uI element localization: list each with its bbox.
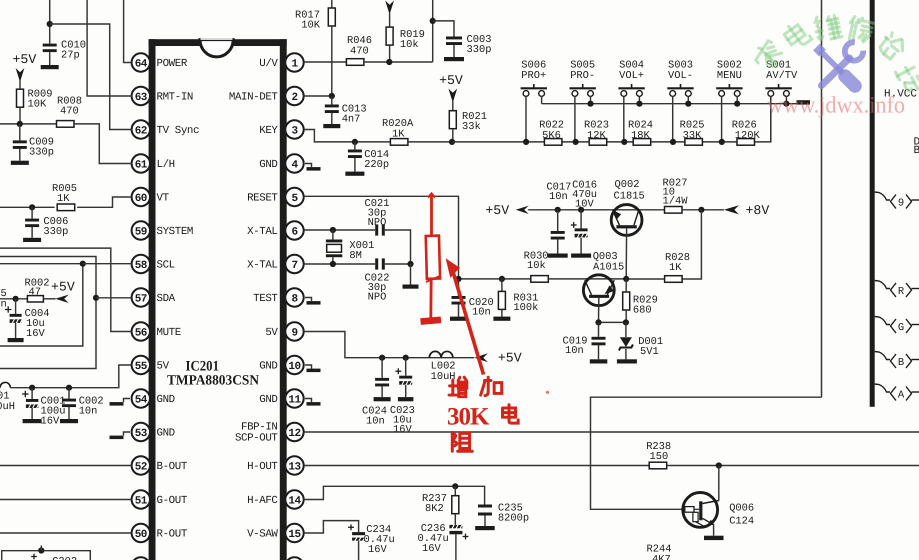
svg-text:30K: 30K <box>447 404 490 431</box>
capacitor C017 <box>557 210 559 231</box>
junction key ladder <box>719 139 725 145</box>
wire reset node rail <box>459 278 532 280</box>
capacitor C020 <box>458 279 460 296</box>
svg-text:A: A <box>898 390 905 402</box>
svg-text:+5V: +5V <box>13 52 37 67</box>
svg-text:3: 3 <box>291 125 298 137</box>
ground pin 8 <box>305 298 312 302</box>
svg-text:8K2: 8K2 <box>425 503 444 515</box>
wire node A to pin 62 <box>50 24 132 130</box>
pin 53 GND <box>132 423 150 441</box>
svg-text:12K: 12K <box>587 130 606 142</box>
svg-text:61: 61 <box>135 159 148 171</box>
svg-text:64: 64 <box>135 58 148 70</box>
svg-text:330p: 330p <box>29 147 54 159</box>
resistor R002 <box>27 296 43 302</box>
capacitor C234 <box>348 526 354 528</box>
pin 4 GND <box>285 154 303 172</box>
resistor R017 <box>331 0 333 8</box>
wire to pin 64 <box>124 0 132 63</box>
+5V supply L002 <box>474 353 488 362</box>
pin 54 GND <box>132 389 150 407</box>
svg-text:55: 55 <box>135 361 148 373</box>
node C019 junction <box>595 319 601 325</box>
IC U201 body (IC201 TMPA8803CSN) <box>149 39 156 560</box>
annotation red resistor <box>428 194 435 198</box>
node A junction <box>47 21 53 27</box>
bus thin vertical <box>821 0 823 397</box>
node R019/R046 junction <box>386 59 392 65</box>
resistor R028 <box>665 276 683 283</box>
svg-text:5K6: 5K6 <box>542 130 561 142</box>
node C006 junction <box>29 204 35 210</box>
ground pin 10 <box>305 365 312 369</box>
svg-text:1/4W: 1/4W <box>663 196 689 208</box>
svg-text:PRO-: PRO- <box>570 70 595 82</box>
ground C010 <box>41 65 59 69</box>
resistor R023 <box>589 139 607 146</box>
wire R028 branch <box>683 210 702 279</box>
svg-text:NPO: NPO <box>368 292 387 304</box>
wire key rail upper <box>542 103 797 105</box>
pin 62 TV Sync <box>132 120 150 138</box>
pin 57 SDA <box>132 288 150 306</box>
node SCL junction <box>80 261 86 267</box>
node C013 junction <box>329 93 335 99</box>
svg-text:A1015: A1015 <box>593 262 624 274</box>
ground C017 <box>548 254 568 258</box>
ground C002 <box>60 419 78 423</box>
ground C020 <box>450 317 467 321</box>
svg-text:+5V: +5V <box>439 73 463 88</box>
capacitor C014 <box>354 142 356 150</box>
wire R002 row <box>0 298 27 300</box>
wire pin 9 rail <box>304 332 475 358</box>
svg-text:57: 57 <box>135 293 147 305</box>
svg-text:+8V: +8V <box>746 203 770 218</box>
svg-text:B: B <box>898 357 904 369</box>
wire pin 5 RESET <box>304 196 459 279</box>
node C004 junction <box>13 296 19 302</box>
svg-text:V-SAW: V-SAW <box>247 529 278 541</box>
bus tap A <box>875 384 890 392</box>
wire C022 right <box>385 263 411 265</box>
svg-text:16V: 16V <box>368 544 387 556</box>
svg-text:15: 15 <box>288 529 301 541</box>
wire to pin 58 SCL <box>83 263 132 265</box>
svg-text:GND: GND <box>157 428 175 440</box>
svg-text:Q006: Q006 <box>729 503 754 515</box>
svg-text:58: 58 <box>135 260 148 272</box>
svg-text:L/H: L/H <box>157 159 175 171</box>
svg-text:8M: 8M <box>349 250 361 262</box>
wire key ladder main <box>545 96 771 141</box>
svg-text:SCL: SCL <box>157 260 175 272</box>
svg-text:H-OUT: H-OUT <box>247 461 278 473</box>
transistor Q003 <box>583 275 614 306</box>
capacitor C022 <box>375 258 378 269</box>
resistor R005 <box>57 204 74 211</box>
svg-text:G: G <box>898 322 904 334</box>
svg-text:MAIN-DET: MAIN-DET <box>229 92 279 104</box>
svg-text:18K: 18K <box>631 130 650 142</box>
svg-text:5V1: 5V1 <box>640 346 659 358</box>
wire Q003 collector row <box>599 321 626 323</box>
switch S001 AV/TV <box>765 87 791 89</box>
pin 8 TEST <box>285 288 303 306</box>
svg-text:52: 52 <box>135 461 147 473</box>
wire C021 right <box>385 230 411 264</box>
svg-text:62: 62 <box>135 125 147 137</box>
pin 61 L/H <box>132 154 150 172</box>
label C202 <box>31 556 37 558</box>
switch S005 PRO- <box>570 87 596 89</box>
node C016 junction <box>578 207 584 213</box>
capacitor C009 <box>19 124 21 140</box>
wire pin 3 KEY <box>304 130 391 142</box>
ground pin 11 <box>305 399 312 403</box>
capacitor C023 <box>405 358 407 376</box>
svg-text:16V: 16V <box>41 416 60 428</box>
+8V supply <box>724 205 739 214</box>
ground C006 <box>23 238 41 242</box>
node X001 bottom junction <box>330 261 336 267</box>
svg-text:1: 1 <box>291 58 298 70</box>
svg-text:330p: 330p <box>467 44 492 56</box>
node R021 junction <box>449 139 455 145</box>
resistor R021 <box>449 111 456 129</box>
wire to top right <box>432 0 434 62</box>
module inner box <box>0 264 83 346</box>
wire top node A <box>49 0 51 44</box>
ground C003 <box>444 57 464 61</box>
svg-text:10n: 10n <box>565 345 584 357</box>
junction key rail <box>636 101 642 107</box>
capacitor C001 <box>31 388 33 399</box>
wire to pin 57 SDA <box>96 297 132 299</box>
pin 55 5V <box>132 356 150 374</box>
pin 63 RMT-IN <box>132 87 150 105</box>
svg-text:8: 8 <box>291 293 298 305</box>
svg-text:MUTE: MUTE <box>157 327 181 339</box>
ground C023 <box>398 397 414 401</box>
ground Q006 <box>704 536 724 540</box>
pin 3 KEY <box>285 120 303 138</box>
svg-text:680: 680 <box>633 305 652 317</box>
bus H.VCC thick <box>870 0 875 407</box>
capacitor C019 <box>598 322 600 336</box>
svg-text:33k: 33k <box>462 121 481 133</box>
junction key rail <box>685 101 691 107</box>
svg-text:10n: 10n <box>472 307 491 319</box>
inductor L001 <box>0 382 10 387</box>
resistor R030 <box>531 276 549 283</box>
resistor R027 <box>665 207 683 214</box>
watermark tool icon <box>817 47 823 53</box>
svg-text:1K: 1K <box>669 262 682 274</box>
capacitor C021 <box>375 224 378 235</box>
svg-text:AV/TV: AV/TV <box>766 70 798 82</box>
resistor R237 <box>454 486 456 495</box>
resistor R008 <box>57 121 75 128</box>
pin 49 partial circle <box>132 557 150 560</box>
node R237 junction <box>452 483 458 489</box>
svg-text:16V: 16V <box>393 424 412 436</box>
bus tap 9 <box>875 192 890 200</box>
svg-text:SYSTEM: SYSTEM <box>157 226 193 238</box>
wire C003 branch <box>433 21 454 37</box>
node R031 junction <box>499 276 505 282</box>
wire pin 13 H-OUT <box>304 465 650 467</box>
pin 10 GND <box>285 356 303 374</box>
svg-text:4: 4 <box>291 159 298 171</box>
svg-text:10V: 10V <box>575 199 594 211</box>
wire pin 6 <box>304 229 375 231</box>
svg-text:B: B <box>914 145 919 157</box>
svg-text:C124: C124 <box>729 516 754 528</box>
ground pin 54 <box>124 399 131 403</box>
ground C019 <box>590 359 608 363</box>
ground C013 <box>323 124 340 128</box>
pin 2 MAIN-DET <box>285 87 303 105</box>
svg-text:n: n <box>1 299 7 311</box>
svg-text:H-AFC: H-AFC <box>247 495 278 507</box>
svg-text:27p: 27p <box>61 50 80 62</box>
svg-text:10uH: 10uH <box>0 401 15 413</box>
pin 51 G-OUT <box>132 490 150 508</box>
pin 64 POWER <box>132 53 150 71</box>
svg-text:+5V: +5V <box>51 280 75 295</box>
svg-text:TV Sync: TV Sync <box>157 125 200 137</box>
svg-text:RMT-IN: RMT-IN <box>157 92 193 104</box>
svg-text:R-OUT: R-OUT <box>157 529 188 541</box>
capacitor C235 <box>478 505 492 508</box>
resistor R019 <box>386 27 393 45</box>
svg-text:TMPA8803CSN: TMPA8803CSN <box>167 373 260 389</box>
svg-text:NPO: NPO <box>368 217 387 229</box>
wire pin 15 V-SAW <box>304 521 359 533</box>
svg-text:14: 14 <box>288 495 301 507</box>
resistor R046 <box>346 59 364 66</box>
svg-text:220p: 220p <box>364 159 389 171</box>
ground C004 <box>8 338 24 342</box>
svg-text:10k: 10k <box>527 260 546 272</box>
annotation red text 30K <box>449 377 467 396</box>
bus tap G <box>875 317 890 325</box>
wire to pin 56 MUTE <box>0 248 132 331</box>
capacitor C006 <box>31 207 33 218</box>
svg-text:53: 53 <box>135 428 148 440</box>
box C202 partial <box>2 551 91 560</box>
wire pin 12 FBP <box>304 431 919 433</box>
svg-text:PRO+: PRO+ <box>521 70 546 82</box>
zener diode D001 <box>625 322 627 337</box>
svg-text:120K: 120K <box>735 130 761 142</box>
wire 5V rail Q002 <box>528 209 664 211</box>
svg-text:GND: GND <box>259 361 277 373</box>
pin 6 X-TAL <box>285 221 303 239</box>
svg-text:G-OUT: G-OUT <box>157 495 188 507</box>
svg-text:10n: 10n <box>79 406 98 418</box>
svg-text:10K: 10K <box>301 20 320 32</box>
svg-text:10: 10 <box>288 361 300 373</box>
ground C009 <box>11 161 29 165</box>
svg-text:5V: 5V <box>265 327 278 339</box>
svg-text:33K: 33K <box>683 130 702 142</box>
junction key ladder <box>621 139 627 145</box>
node SDA junction <box>93 295 99 301</box>
ground C014 <box>345 172 364 176</box>
inductor L002 <box>429 351 453 357</box>
node C023 junction <box>403 355 409 361</box>
wire pin 51 G-OUT <box>0 499 132 501</box>
svg-text:6: 6 <box>291 226 297 238</box>
svg-text:POWER: POWER <box>157 58 188 70</box>
svg-text:C202: C202 <box>52 556 77 560</box>
wire 5V rail <box>10 365 131 388</box>
capacitor C010 <box>43 44 57 47</box>
wire R008 row <box>0 123 57 125</box>
watermark forum characters <box>752 38 786 72</box>
wire to pin 63 <box>87 0 132 96</box>
resistor R026 <box>737 139 755 146</box>
pin 1 U/V <box>285 53 303 71</box>
ground key rail end <box>797 100 811 104</box>
svg-text:VOL+: VOL+ <box>619 70 644 82</box>
switch S004 VOL+ <box>618 87 644 89</box>
pin 58 SCL <box>132 255 150 273</box>
svg-text:330p: 330p <box>43 226 68 238</box>
svg-text:150: 150 <box>650 451 669 463</box>
svg-text:8200p: 8200p <box>498 513 529 525</box>
resistor R025 <box>685 139 703 146</box>
pin 14 H-AFC <box>285 490 303 508</box>
ground R031 <box>493 317 510 321</box>
svg-text:100k: 100k <box>513 302 538 314</box>
junction key rail <box>734 101 740 107</box>
ground D001 <box>617 359 637 363</box>
wire H drive <box>591 397 822 509</box>
svg-text:B-OUT: B-OUT <box>157 461 188 473</box>
svg-text:1K: 1K <box>392 129 405 141</box>
wire pin 1 row <box>304 61 347 63</box>
svg-text:1K: 1K <box>57 193 70 205</box>
pin 59 SYSTEM <box>132 221 150 239</box>
svg-text:5V: 5V <box>157 361 170 373</box>
svg-text:X-TAL: X-TAL <box>247 260 277 272</box>
svg-text:RESET: RESET <box>247 193 278 205</box>
resistor R022 <box>544 139 562 146</box>
svg-text:12: 12 <box>288 428 300 440</box>
svg-text:63: 63 <box>135 92 148 104</box>
wire pin 14 H-AFC <box>304 486 485 504</box>
+5V supply R002 <box>55 295 68 303</box>
wire pin 7 <box>304 263 375 265</box>
svg-text:56: 56 <box>135 327 147 339</box>
crystal X001 <box>332 230 334 240</box>
svg-text:GND: GND <box>259 394 277 406</box>
svg-text:50: 50 <box>135 529 147 541</box>
wire pin 52 B-OUT <box>0 465 132 467</box>
svg-text:GND: GND <box>259 159 277 171</box>
bus tap B <box>875 352 890 360</box>
svg-text:54: 54 <box>135 394 148 406</box>
node xtal gnd junction <box>407 261 413 267</box>
wire pin 50 R-OUT <box>0 532 132 534</box>
wire key ladder <box>452 141 545 143</box>
pin 60 VT <box>132 188 150 206</box>
svg-text:MENU: MENU <box>717 70 742 82</box>
svg-text:60: 60 <box>135 193 147 205</box>
svg-text:GND: GND <box>157 394 175 406</box>
+5V arrow R019 <box>385 1 394 15</box>
svg-text:www.jdwx.info: www.jdwx.info <box>767 93 905 119</box>
pin 9 5V <box>285 322 303 340</box>
ground C235 <box>475 526 495 530</box>
capacitor C016 <box>580 210 582 229</box>
node C002 junction <box>66 385 72 391</box>
pin 7 X-TAL <box>285 255 303 273</box>
pin 11 GND <box>285 389 303 407</box>
resistor R024 <box>633 139 651 146</box>
pin 13 H-OUT <box>285 456 303 474</box>
svg-text:KEY: KEY <box>259 125 278 137</box>
resistor R009 <box>17 89 24 107</box>
node C003 junction <box>430 18 436 24</box>
junction key ladder <box>670 139 676 145</box>
svg-text:10n: 10n <box>549 191 568 203</box>
capacitor C002 <box>68 388 70 399</box>
svg-text:10n: 10n <box>366 416 385 428</box>
svg-text:9: 9 <box>291 327 297 339</box>
capacitor C003 <box>446 37 462 40</box>
svg-text:11: 11 <box>288 394 301 406</box>
node C014 junction <box>352 139 358 145</box>
svg-text:10K: 10K <box>28 99 47 111</box>
svg-text:13: 13 <box>288 461 301 473</box>
switch S006 PRO+ <box>521 87 547 89</box>
svg-text:5: 5 <box>291 193 298 205</box>
svg-text:TEST: TEST <box>253 293 278 305</box>
svg-text:470: 470 <box>350 46 369 58</box>
capacitor C024 <box>381 358 383 378</box>
ground crystal <box>410 264 412 285</box>
pin 56 MUTE <box>132 322 150 340</box>
ground C024 <box>374 397 391 401</box>
wire VT row <box>0 206 55 208</box>
bus tap R <box>875 281 890 289</box>
node D001 junction <box>623 319 629 325</box>
ground C016 <box>571 254 591 258</box>
ground pin 53 <box>124 432 131 436</box>
node R009/C009 junction <box>17 121 23 127</box>
wire Q006 collector <box>718 466 720 501</box>
svg-text:59: 59 <box>135 226 147 238</box>
svg-text:Q002: Q002 <box>615 179 640 191</box>
annotation red speck <box>546 391 549 394</box>
svg-text:VT: VT <box>157 193 170 205</box>
svg-text:9: 9 <box>898 198 904 210</box>
node X001 top junction <box>330 227 336 233</box>
switch S003 VOL- <box>667 87 693 89</box>
junction key rail <box>587 101 593 107</box>
module outer box <box>0 257 96 369</box>
junction key ladder <box>573 139 579 145</box>
svg-text:R: R <box>898 286 905 298</box>
node C202 junction <box>38 547 44 553</box>
junction key ladder <box>523 139 529 145</box>
svg-text:U/V: U/V <box>259 58 278 70</box>
